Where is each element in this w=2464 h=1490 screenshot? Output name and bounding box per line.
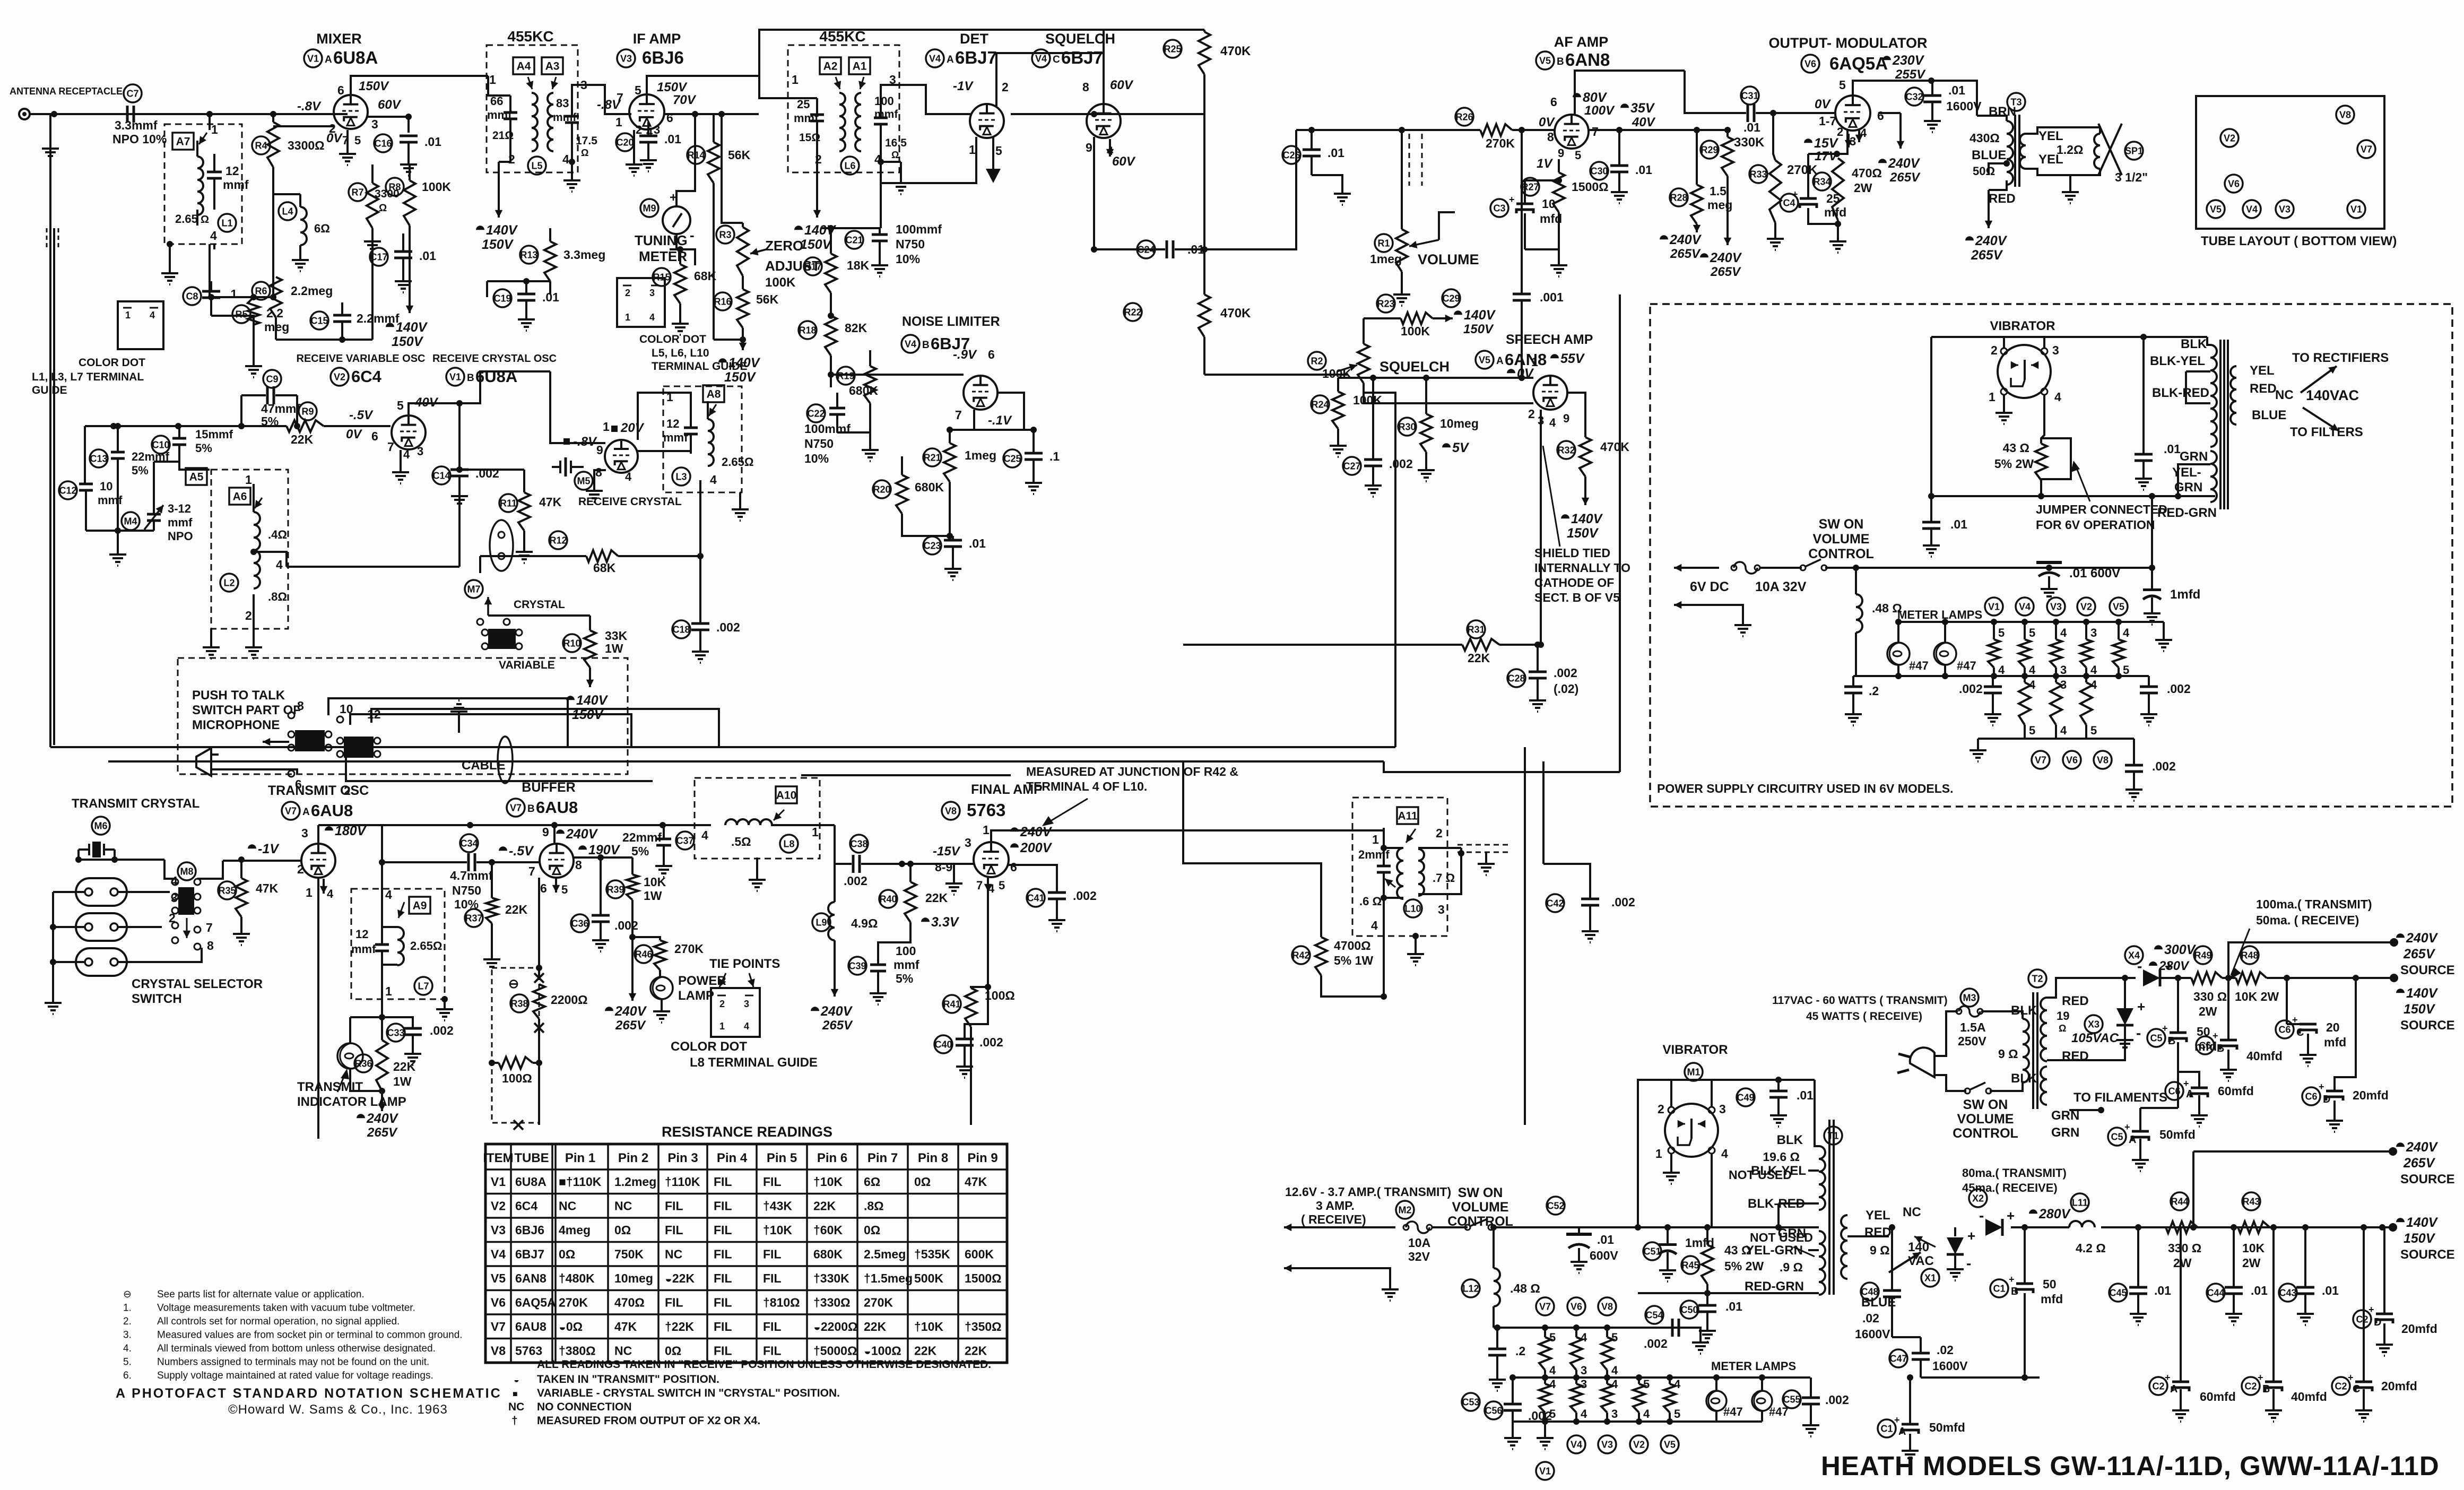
svg-text:4meg: 4meg (559, 1223, 591, 1237)
tube V3 IF amp (629, 94, 664, 129)
svg-text:43 Ω: 43 Ω (2003, 441, 2029, 455)
capacitor 12mmf in A7 (207, 171, 222, 174)
svg-text:L5, L6, L10: L5, L6, L10 (652, 347, 709, 359)
capacitor C50 .01 (1680, 1301, 1698, 1319)
svg-text:C22: C22 (807, 408, 825, 419)
svg-text:240V: 240V (1710, 250, 1742, 265)
svg-text:2.65Ω: 2.65Ω (410, 939, 442, 952)
240V tap from R43 (2192, 1151, 2194, 1227)
svg-text:.002: .002 (2167, 682, 2191, 696)
svg-text:680K: 680K (849, 384, 878, 397)
svg-text:+: + (2009, 1274, 2015, 1285)
svg-text:600K: 600K (965, 1248, 994, 1261)
svg-text:L2: L2 (223, 577, 235, 588)
svg-text:+: + (2165, 1372, 2171, 1383)
wire V5B plate top (1575, 71, 1685, 115)
svg-text:C23: C23 (923, 540, 941, 551)
6V transformer taps (2186, 370, 2210, 372)
svg-text:250V: 250V (1958, 1034, 1986, 1048)
coil L8 (725, 819, 772, 825)
coil L10 primary (1397, 848, 1403, 899)
svg-text:C14: C14 (432, 470, 450, 481)
svg-text:TAKEN IN "TRANSMIT" POSITION.: TAKEN IN "TRANSMIT" POSITION. (537, 1373, 719, 1385)
svg-text:IF AMP: IF AMP (633, 31, 681, 47)
svg-text:19.6 Ω: 19.6 Ω (1763, 1150, 1800, 1164)
transmit indicator lamp (337, 1043, 363, 1069)
transformer T3 (2007, 93, 2025, 111)
svg-text:(.02): (.02) (1554, 682, 1578, 696)
svg-text:0Ω: 0Ω (614, 1223, 631, 1237)
svg-text:4: 4 (1998, 663, 2005, 677)
svg-text:40mfd: 40mfd (2291, 1390, 2327, 1404)
svg-text:V8: V8 (1601, 1301, 1613, 1312)
crystal selector wires (53, 891, 85, 893)
svg-text:2.2meg: 2.2meg (291, 284, 333, 298)
svg-text:140V: 140V (396, 320, 428, 335)
svg-text:3: 3 (1438, 903, 1445, 916)
svg-text:3: 3 (2090, 626, 2097, 639)
svg-text:V2: V2 (2080, 601, 2092, 612)
svg-text:DET: DET (960, 31, 989, 47)
svg-text:R26: R26 (1455, 111, 1473, 122)
svg-text:5: 5 (1998, 626, 2005, 639)
svg-text:.01: .01 (542, 290, 559, 304)
svg-text:140V: 140V (486, 223, 518, 238)
svg-text:2: 2 (636, 123, 642, 136)
svg-text:R11: R11 (500, 498, 517, 508)
svg-text:1: 1 (385, 984, 392, 998)
svg-text:M3: M3 (1963, 992, 1976, 1003)
wire L10 pin4 down (1383, 925, 1385, 997)
tube V1A mixer (334, 95, 368, 129)
svg-text:T3: T3 (2010, 97, 2021, 107)
coil L1 (197, 157, 203, 215)
svg-text:V1: V1 (1988, 601, 2000, 612)
svg-text:GRN: GRN (1778, 1226, 1806, 1241)
svg-text:10%: 10% (896, 252, 920, 266)
svg-text:4: 4 (2060, 724, 2067, 737)
svg-text:6AQ5A: 6AQ5A (1829, 54, 1888, 73)
svg-text:3.: 3. (123, 1330, 132, 1341)
wire V4B cathode net (950, 410, 974, 430)
svg-text:6C4: 6C4 (351, 367, 382, 386)
wires R5 R6 C8 net (210, 296, 276, 298)
svg-text:A4: A4 (517, 60, 531, 73)
svg-text:2.2mmf: 2.2mmf (357, 311, 400, 325)
svg-text:8: 8 (1547, 130, 1554, 144)
svg-text:-: - (1979, 1207, 1984, 1224)
resistor R35 47K (218, 881, 236, 899)
svg-text:⊖: ⊖ (508, 977, 519, 991)
wire V5A grid (1364, 402, 1533, 404)
arrow L5 pin2 to 140V (498, 162, 500, 218)
svg-text:680K: 680K (813, 1248, 843, 1261)
dashed box antenna coil A7 L1 (164, 124, 242, 244)
svg-text:R10: R10 (563, 638, 580, 648)
resistor R11 47K (499, 494, 517, 512)
svg-text:4: 4 (385, 888, 392, 902)
bottom rail vibrator 6V (1931, 495, 2215, 497)
wire vibrator pin4 to rail (1711, 1154, 1713, 1227)
svg-text:4: 4 (276, 558, 283, 571)
svg-text:R24: R24 (1311, 399, 1329, 410)
svg-text:5% 1W: 5% 1W (1334, 954, 1373, 967)
svg-text:6: 6 (540, 881, 547, 895)
svg-text:1: 1 (719, 1021, 725, 1032)
svg-text:A9: A9 (413, 900, 427, 912)
svg-text:Ω: Ω (379, 203, 387, 214)
svg-text:8: 8 (595, 465, 602, 479)
svg-text:240V: 240V (1975, 233, 2008, 248)
wires L5 (488, 76, 510, 96)
svg-text:+: + (2137, 999, 2145, 1015)
capacitor C20 .01 (616, 133, 634, 151)
svg-text:265V: 265V (1670, 247, 1701, 261)
svg-text:50ma. ( RECEIVE): 50ma. ( RECEIVE) (2256, 913, 2359, 927)
svg-text:C41: C41 (1027, 893, 1044, 903)
svg-text:SP1: SP1 (2125, 145, 2143, 156)
svg-text:NPO 10%: NPO 10% (112, 132, 167, 146)
svg-text:†1.5meg: †1.5meg (864, 1271, 913, 1285)
svg-text:.01: .01 (1187, 242, 1204, 256)
svg-text:C20: C20 (616, 137, 634, 148)
capacitor C29 .001 (1442, 289, 1460, 307)
tube V7B buffer (540, 844, 574, 878)
svg-text:NC: NC (559, 1199, 576, 1213)
svg-text:R3: R3 (719, 229, 731, 240)
bus wire 3 right half (801, 774, 1011, 776)
svg-text:C27: C27 (1343, 461, 1360, 471)
svg-text:YEL-: YEL- (2172, 465, 2201, 480)
svg-text:V7: V7 (1539, 1301, 1551, 1312)
svg-text:FIL: FIL (714, 1344, 732, 1358)
svg-text:4: 4 (1611, 1364, 1618, 1377)
svg-text:C19: C19 (493, 293, 511, 304)
svg-text:C34: C34 (460, 838, 478, 848)
T2 secondary top wire (2047, 978, 2136, 998)
svg-text:†10K: †10K (813, 1175, 843, 1189)
svg-text:1: 1 (306, 886, 313, 899)
arrow T3 RED to 240V (1988, 190, 1990, 228)
svg-text:140VAC: 140VAC (2306, 387, 2359, 403)
svg-text:V5: V5 (2210, 204, 2222, 214)
svg-text:Ω: Ω (2059, 1023, 2066, 1034)
svg-text:2.: 2. (123, 1316, 132, 1327)
svg-text:5V: 5V (1452, 440, 1470, 455)
svg-text:COLOR DOT: COLOR DOT (639, 333, 706, 345)
svg-text:3: 3 (1719, 1102, 1726, 1116)
wire V4B grid net (831, 374, 964, 376)
svg-text:.002: .002 (844, 874, 867, 888)
svg-text:16.5: 16.5 (885, 137, 907, 149)
12V B+ rail (2101, 1226, 2393, 1228)
svg-text:.01 600V: .01 600V (2069, 566, 2120, 581)
svg-text:C5: C5 (2150, 1033, 2162, 1043)
svg-text:47mmf: 47mmf (261, 402, 300, 415)
svg-text:C56: C56 (1485, 1405, 1502, 1416)
svg-text:FOR 6V OPERATION: FOR 6V OPERATION (2036, 518, 2155, 532)
power lamp (650, 977, 673, 999)
svg-text:YEL: YEL (1866, 1208, 1890, 1223)
svg-text:.002: .002 (716, 620, 740, 634)
tube V7A transmit osc (301, 844, 335, 878)
capacitor C32 .01 1600V (1905, 88, 1923, 106)
vibrator 12V ground (1670, 1154, 1672, 1167)
capacitor C8 .1 (183, 287, 201, 305)
svg-text:C38: C38 (850, 838, 867, 849)
svg-text:5: 5 (999, 879, 1005, 892)
svg-text:C36: C36 (571, 918, 588, 929)
wire C24 to AF grid (1204, 130, 1296, 249)
arrow R39 to 240V (631, 937, 634, 1001)
svg-text:240V: 240V (2406, 1140, 2439, 1155)
svg-text:JUMPER CONNECTED: JUMPER CONNECTED (2036, 503, 2167, 516)
svg-text:270K: 270K (674, 942, 704, 956)
capacitor C5B 50mfd (2147, 1029, 2165, 1047)
svg-text:V8: V8 (945, 805, 957, 816)
svg-text:C2: C2 (2152, 1381, 2164, 1391)
svg-text:265V: 265V (367, 1125, 398, 1140)
svg-text:1600V: 1600V (1932, 1359, 1968, 1373)
capacitor 12mmf A9 (375, 943, 389, 946)
6V DC input fuse (1674, 567, 1719, 569)
svg-text:Pin 9: Pin 9 (967, 1151, 997, 1165)
svg-text:R7: R7 (351, 187, 363, 197)
svg-text:4: 4 (1611, 1378, 1618, 1391)
svg-text:25: 25 (797, 98, 810, 111)
dashed box A10 L8 (695, 778, 820, 859)
resistor R14 56K (687, 146, 705, 164)
svg-text:6C4: 6C4 (515, 1199, 537, 1213)
tube V4B noise limiter (964, 376, 997, 410)
svg-text:V2: V2 (1633, 1439, 1645, 1450)
svg-text:2: 2 (297, 862, 304, 876)
svg-text:†810Ω: †810Ω (763, 1296, 800, 1310)
wire V7A plate top rail (317, 825, 319, 844)
12V heater bottom rail (1513, 1420, 1762, 1423)
svg-text:6BJ7: 6BJ7 (1061, 48, 1103, 67)
tube layout V8 (2336, 106, 2354, 124)
svg-text:1: 1 (125, 310, 131, 320)
wire V3 cathode ground (633, 130, 635, 159)
capacitor C34 4.7mmf (460, 834, 478, 852)
ground shield A11 (1485, 852, 1487, 859)
svg-text:All terminals viewed from bott: All terminals viewed from bottom unless … (157, 1343, 436, 1354)
svg-text:25: 25 (1826, 192, 1840, 205)
svg-text:.002: .002 (1073, 889, 1097, 903)
svg-text:V1: V1 (2350, 204, 2362, 214)
svg-text:4: 4 (2029, 678, 2036, 691)
svg-text:#47: #47 (1909, 659, 1929, 672)
svg-text:TRANSMIT CRYSTAL: TRANSMIT CRYSTAL (72, 796, 199, 811)
svg-text:A2: A2 (823, 60, 838, 73)
svg-text:-15V: -15V (933, 844, 961, 859)
svg-text:5763: 5763 (967, 800, 1005, 820)
svg-text:R38: R38 (510, 998, 528, 1009)
resistor R36 22K 1W (354, 1054, 372, 1072)
svg-text:◒100Ω: ◒100Ω (864, 1344, 901, 1358)
svg-text:OUTPUT- MODULATOR: OUTPUT- MODULATOR (1769, 35, 1928, 51)
svg-text:4: 4 (701, 828, 708, 842)
svg-text:V5: V5 (1479, 354, 1490, 365)
svg-text:5: 5 (635, 83, 641, 97)
svg-text:FIL: FIL (763, 1175, 782, 1189)
svg-text:50mfd: 50mfd (1929, 1420, 1965, 1434)
svg-text:.002: .002 (614, 919, 638, 932)
140 VAC label (1914, 1236, 1936, 1247)
tube layout V2 (2220, 129, 2239, 147)
svg-text:-.8V: -.8V (297, 99, 322, 114)
svg-text:C8: C8 (186, 291, 198, 301)
12V heater resistors row1 (1544, 1328, 1546, 1337)
svg-text:SECT. B OF V5: SECT. B OF V5 (1534, 591, 1620, 604)
svg-text:140V: 140V (576, 693, 609, 708)
svg-text:4.9Ω: 4.9Ω (851, 916, 878, 930)
svg-text:A PHOTOFACT STANDARD NOTATION: A PHOTOFACT STANDARD NOTATION SCHEMATIC (116, 1386, 502, 1401)
ground at antenna (49, 114, 51, 143)
svg-text:6.: 6. (123, 1370, 132, 1381)
svg-text:V7: V7 (2035, 755, 2046, 765)
svg-text:SOURCE: SOURCE (2400, 963, 2455, 977)
svg-text:.01: .01 (664, 132, 681, 146)
resistor R7 3300 (349, 183, 367, 201)
svg-text:47K: 47K (256, 881, 279, 895)
svg-text:12: 12 (225, 164, 239, 178)
wires lamp loop (350, 1016, 382, 1018)
svg-text:.002: .002 (1528, 1409, 1552, 1423)
svg-text:2W: 2W (2242, 1256, 2261, 1270)
svg-text:5: 5 (561, 883, 568, 896)
svg-text:V5: V5 (1539, 55, 1551, 66)
svg-text:500K: 500K (914, 1271, 943, 1285)
svg-text:6BJ7: 6BJ7 (515, 1248, 544, 1261)
svg-text:2: 2 (508, 152, 515, 166)
svg-text:BLUE: BLUE (1972, 148, 2006, 162)
svg-text:NC: NC (508, 1401, 524, 1413)
svg-text:⊖: ⊖ (123, 1289, 132, 1300)
svg-text:B: B (1557, 56, 1564, 67)
svg-text:FIL: FIL (763, 1344, 782, 1358)
svg-text:C21: C21 (845, 235, 863, 245)
svg-text:V5: V5 (2113, 601, 2124, 612)
svg-text:R27: R27 (1521, 181, 1539, 192)
svg-text:FIL: FIL (763, 1271, 782, 1285)
svg-text:3: 3 (965, 836, 971, 850)
svg-text:.2: .2 (1869, 684, 1879, 698)
svg-text:Voltage measurements taken wit: Voltage measurements taken with vacuum t… (157, 1303, 415, 1314)
svg-text:0V: 0V (326, 131, 343, 145)
svg-text:0Ω: 0Ω (665, 1344, 681, 1358)
svg-text:C13: C13 (90, 453, 107, 464)
svg-text:†43K: †43K (763, 1199, 792, 1213)
svg-text:1W: 1W (644, 889, 662, 903)
300V 280V label (2154, 945, 2163, 949)
ground arrow 12V (1284, 1267, 1358, 1269)
6V DC ground arrow (1674, 604, 1719, 606)
resistor R49 330ohm 2W (2194, 946, 2212, 964)
svg-text:1500Ω: 1500Ω (1572, 180, 1609, 194)
wire V3 plate top (647, 76, 759, 94)
svg-text:265V: 265V (2403, 1156, 2436, 1171)
svg-text:9 Ω: 9 Ω (1870, 1243, 1890, 1257)
svg-text:NC: NC (665, 1248, 682, 1261)
svg-text:C15: C15 (310, 315, 328, 326)
svg-text:BLK-YEL: BLK-YEL (2150, 354, 2205, 368)
svg-text:V8: V8 (491, 1344, 506, 1358)
svg-text:6: 6 (988, 348, 995, 361)
svg-text:FINAL AMP: FINAL AMP (971, 782, 1043, 797)
svg-text:3300Ω: 3300Ω (288, 138, 325, 152)
svg-text:6BJ6: 6BJ6 (642, 48, 684, 67)
svg-text:V4: V4 (2246, 204, 2258, 214)
svg-text:22K: 22K (864, 1320, 887, 1333)
svg-text:150V: 150V (359, 79, 389, 93)
svg-text:MEASURED AT JUNCTION OF R42 &: MEASURED AT JUNCTION OF R42 & (1026, 765, 1238, 778)
capacitor C41 .002 (1027, 889, 1045, 907)
svg-text:4: 4 (1549, 1378, 1556, 1391)
cable symbol (498, 737, 513, 783)
svg-text:TO RECTIFIERS: TO RECTIFIERS (2292, 351, 2389, 365)
svg-text:R41: R41 (943, 999, 960, 1009)
svg-text:R19: R19 (837, 370, 854, 381)
svg-text:.01: .01 (1635, 163, 1652, 177)
svg-text:100: 100 (896, 944, 916, 958)
bus wire 1 (50, 746, 1395, 748)
svg-text:CRYSTAL: CRYSTAL (514, 599, 565, 611)
arrow R16 to 140V (714, 339, 743, 341)
svg-text:.002: .002 (1825, 1393, 1849, 1407)
fuse M3 (1960, 989, 1979, 1007)
crystal M6 (92, 817, 110, 835)
svg-text:6: 6 (371, 429, 378, 443)
svg-text:4: 4 (1674, 1378, 1681, 1391)
svg-text:2: 2 (1658, 1102, 1664, 1116)
svg-text:100K: 100K (1401, 324, 1430, 338)
svg-text:470K: 470K (1220, 44, 1251, 58)
svg-text:270K: 270K (1486, 136, 1515, 150)
svg-text:3: 3 (1581, 1364, 1587, 1377)
svg-text:R48: R48 (2241, 950, 2258, 960)
capacitor C31 .01 (1741, 86, 1759, 105)
svg-text:†22K: †22K (665, 1320, 694, 1333)
svg-text:FIL: FIL (714, 1296, 732, 1310)
capacitor C6B 40mfd (2196, 1036, 2214, 1054)
svg-text:470K: 470K (1600, 440, 1629, 454)
svg-text:17V: 17V (1815, 149, 1838, 163)
fuse M2 (1396, 1201, 1414, 1219)
cap 1mfd 6V (2143, 588, 2161, 591)
svg-text:470K: 470K (1220, 306, 1251, 320)
meter lamps 12V bulbs (1706, 1391, 1726, 1411)
svg-text:L7: L7 (418, 981, 429, 991)
svg-text:FIL: FIL (763, 1320, 782, 1333)
svg-text:YEL: YEL (2250, 363, 2275, 378)
shield dashes near A11 (1457, 844, 1511, 846)
svg-text:CRYSTAL SELECTOR: CRYSTAL SELECTOR (132, 977, 263, 991)
capacitor C47 .02 1600V (1889, 1349, 1907, 1367)
svg-text:150V: 150V (657, 80, 688, 94)
capacitor C6A 60mfd (2165, 1082, 2183, 1100)
wire V7A grid left (223, 860, 301, 862)
svg-text:C48: C48 (1861, 1286, 1878, 1297)
svg-text:.2: .2 (1515, 1344, 1525, 1358)
svg-text:NO CONNECTION: NO CONNECTION (537, 1401, 632, 1413)
svg-text:82K: 82K (845, 321, 867, 335)
svg-text:190V: 190V (588, 843, 621, 857)
capacitor C22 100mmf (807, 404, 825, 422)
transformer 6V (2210, 345, 2217, 447)
capacitor C23 .01 (923, 536, 941, 555)
